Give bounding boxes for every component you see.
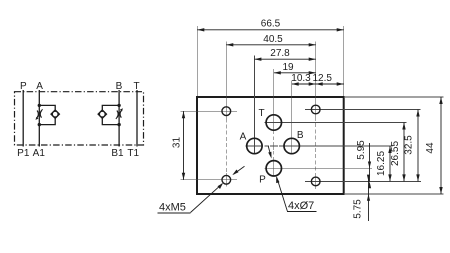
svg-text:A: A	[240, 131, 247, 142]
centerline B column	[291, 81, 293, 154]
extension line plate top edge	[345, 96, 444, 98]
extension line plate left edge	[196, 26, 198, 96]
svg-text:12.5: 12.5	[313, 73, 333, 84]
centerline top-right M5 row	[305, 109, 421, 111]
arrow to M5 hole (upper)	[232, 166, 244, 175]
centerline T row	[265, 122, 407, 124]
svg-text:27.8: 27.8	[270, 48, 290, 59]
svg-text:4xM5: 4xM5	[159, 202, 186, 214]
centerline P row	[265, 167, 373, 169]
dimension 19	[274, 62, 316, 73]
svg-text:10.3: 10.3	[291, 73, 311, 84]
junction dot A bottom	[38, 123, 41, 126]
svg-text:B1: B1	[111, 148, 124, 159]
junction dot A top	[38, 104, 41, 107]
dimension 26.55	[390, 123, 404, 182]
hole M5 top-right	[311, 105, 320, 114]
valve 2 bypass branch wire	[102, 105, 119, 124]
hole A	[247, 138, 262, 153]
svg-text:T1: T1	[127, 148, 139, 159]
dimension 27.8	[254, 48, 315, 59]
centerline bottom-right M5 row	[305, 180, 421, 182]
wire T-T1	[136, 90, 138, 147]
hole M5 top-left	[222, 107, 231, 116]
svg-text:4xØ7: 4xØ7	[288, 200, 314, 212]
hole B	[284, 138, 299, 153]
hole P	[266, 161, 281, 176]
svg-text:19: 19	[282, 62, 294, 73]
centerline right M5 column	[315, 42, 317, 190]
arrow to P hole (upper)	[268, 146, 271, 159]
note 4xO7	[276, 176, 316, 212]
throttle V2 adjust arrow	[116, 108, 123, 119]
centerline left M5 column	[225, 42, 227, 187]
dimension 66.5	[197, 19, 343, 30]
svg-text:T: T	[258, 108, 264, 119]
throttle V1 adjust arrow	[36, 109, 43, 120]
svg-text:B: B	[297, 130, 304, 141]
centerline top-left M5 row	[181, 110, 238, 112]
dimension 44	[425, 97, 441, 194]
dimension 40.5	[226, 34, 315, 45]
valve 1 bypass branch wire	[39, 105, 55, 124]
svg-text:32.5: 32.5	[403, 135, 414, 155]
wire P-P1	[22, 90, 24, 147]
junction dot B bottom	[117, 123, 120, 126]
dimension 31 (left)	[172, 111, 184, 180]
dimension 16.25	[376, 146, 390, 181]
check valve CV2	[98, 110, 106, 118]
centerline A/B row	[246, 145, 393, 147]
hydraulic schematic: subplate boundary (dash-dot box)	[15, 92, 144, 145]
throttle V1	[37, 111, 41, 118]
centerline A column	[253, 56, 255, 154]
junction dot B top	[117, 104, 120, 107]
svg-text:A1: A1	[33, 148, 46, 159]
centerline T/P column	[273, 69, 275, 176]
svg-text:26.55: 26.55	[390, 141, 401, 166]
svg-text:5.95: 5.95	[356, 140, 367, 160]
svg-text:66.5: 66.5	[261, 19, 281, 30]
svg-text:P1: P1	[17, 148, 30, 159]
hole M5 bottom-right	[311, 177, 320, 186]
check valve CV1	[51, 110, 59, 118]
extension line plate right edge	[343, 26, 345, 96]
throttle V2	[117, 111, 121, 118]
svg-text:P: P	[259, 174, 266, 185]
plate outline	[197, 97, 344, 194]
svg-text:40.5: 40.5	[263, 34, 283, 45]
svg-text:5.75: 5.75	[353, 199, 364, 219]
wire B-B1	[118, 90, 120, 147]
dimension 5.95	[356, 140, 371, 188]
hole T	[266, 115, 281, 130]
dimension 12.5	[313, 73, 344, 84]
svg-text:44: 44	[425, 142, 436, 154]
hole M5 bottom-left	[222, 175, 231, 184]
svg-text:16.25: 16.25	[376, 151, 387, 176]
svg-text:31: 31	[172, 137, 183, 149]
extension line plate bottom edge	[345, 193, 444, 195]
wire A-A1	[38, 90, 40, 147]
centerline bottom-left M5 row	[181, 179, 238, 181]
dimension 10.3	[291, 73, 315, 84]
note 4xM5	[158, 183, 224, 214]
dimension 32.5	[403, 110, 418, 182]
dimension 5.75	[353, 175, 371, 221]
